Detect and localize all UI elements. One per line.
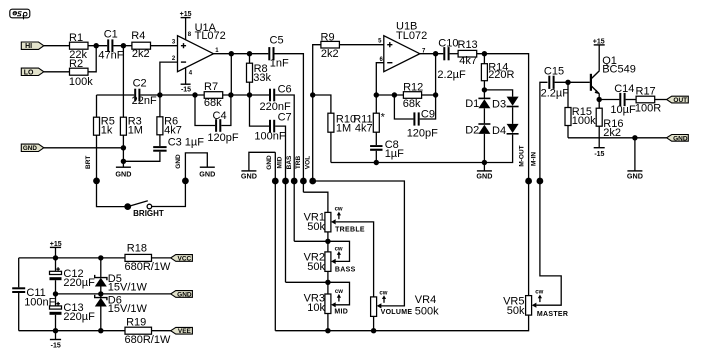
wire VOL node to R10 <box>313 95 331 113</box>
wire U1A pin2 <box>160 62 178 95</box>
+15 supply U1A pin8 <box>180 11 192 40</box>
wire MID to node <box>286 281 328 283</box>
wire output gnd row <box>568 137 667 139</box>
wire U1B output <box>420 53 444 55</box>
capacitor C15 <box>541 66 570 100</box>
wire bright to ground symbol <box>185 153 207 181</box>
resistor R5 <box>94 95 115 181</box>
svg-text:VEE: VEE <box>178 328 192 335</box>
wire M-IN to VR5 wiper <box>536 181 561 305</box>
svg-text:BASS: BASS <box>335 267 356 274</box>
node VR3 bottom <box>325 328 330 333</box>
wire R7 right <box>223 94 250 96</box>
svg-text:BRT: BRT <box>85 156 92 169</box>
node C13 bottom <box>53 328 58 333</box>
potentiometer VR2 <box>304 241 356 282</box>
svg-text:GND: GND <box>23 145 37 152</box>
svg-text:-15: -15 <box>51 343 61 350</box>
wire C7 to MID drop <box>275 126 285 282</box>
svg-text:C14: C14 <box>614 83 634 95</box>
node R3 gnd <box>121 145 126 150</box>
svg-text:C7: C7 <box>278 112 292 124</box>
wire GND drop <box>274 152 276 330</box>
node M-IN board <box>537 178 544 185</box>
ground symbol bright <box>199 167 215 178</box>
svg-text:R13: R13 <box>458 39 478 51</box>
wire bottom rail <box>19 330 125 332</box>
svg-text:-15: -15 <box>181 86 191 93</box>
wire out down to R12 <box>435 54 437 95</box>
svg-text:68k: 68k <box>204 97 222 109</box>
svg-text:68k: 68k <box>403 98 421 110</box>
svg-text:-15: -15 <box>594 151 604 158</box>
wire R19 to VEE <box>152 330 171 332</box>
wire feedback row <box>97 94 135 96</box>
connector HI <box>21 42 44 50</box>
connector OUT <box>667 96 689 104</box>
wire output down to feedback row <box>230 54 232 95</box>
node pin6 <box>374 92 379 97</box>
switch BRIGHT <box>124 201 164 219</box>
svg-text:MASTER: MASTER <box>537 311 568 318</box>
svg-text:TRB: TRB <box>295 156 302 170</box>
svg-text:R1: R1 <box>69 32 83 44</box>
svg-text:10µF: 10µF <box>610 104 636 116</box>
svg-text:4k7: 4k7 <box>164 124 182 136</box>
wire U1B pin6 <box>376 63 384 95</box>
transistor Q1 <box>590 55 636 94</box>
svg-text:BRIGHT: BRIGHT <box>133 209 164 218</box>
svg-text:GND: GND <box>115 169 131 178</box>
svg-text:+15: +15 <box>593 38 605 45</box>
svg-text:R12: R12 <box>403 82 423 94</box>
svg-text:VCC: VCC <box>178 255 192 262</box>
resistor R8 <box>247 54 272 95</box>
svg-text:GND: GND <box>241 172 257 181</box>
node R8 top <box>247 51 252 56</box>
capacitor C3 <box>153 136 204 151</box>
svg-text:50k: 50k <box>307 261 325 273</box>
node gnd out <box>632 135 637 140</box>
wire VOL to VR4 wiper <box>313 181 405 306</box>
svg-text:2.2µF: 2.2µF <box>541 88 570 100</box>
svg-text:GND: GND <box>673 135 688 142</box>
svg-text:M-IN: M-IN <box>531 152 538 166</box>
svg-text:M-OUT: M-OUT <box>519 145 526 166</box>
capacitor C1 <box>98 29 123 62</box>
resistor R17 <box>635 86 661 115</box>
svg-text:15V/1W: 15V/1W <box>108 303 148 315</box>
wire LO to R2 <box>44 71 70 73</box>
svg-text:D3: D3 <box>492 98 506 110</box>
resistor R7 <box>204 81 223 109</box>
-15 supply rail <box>50 331 61 350</box>
wire left branch top <box>18 258 20 287</box>
node base/R15 <box>565 80 570 85</box>
svg-text:C10: C10 <box>438 38 458 50</box>
svg-text:2.2µF: 2.2µF <box>437 69 466 81</box>
resistor R2 <box>69 58 93 88</box>
node MID board <box>282 178 289 185</box>
node VOL board <box>309 178 316 185</box>
wire R1 to C1 <box>88 45 107 47</box>
+15 supply Q1 <box>593 38 605 70</box>
svg-text:TL072: TL072 <box>396 30 427 42</box>
wire VR3 wiper loop <box>328 282 350 305</box>
svg-text:100R: 100R <box>635 103 661 115</box>
wire R17 to OUT <box>655 99 667 101</box>
svg-text:GND: GND <box>476 172 492 181</box>
node D6 bottom <box>98 328 103 333</box>
svg-text:C3 1µF: C3 1µF <box>168 136 205 148</box>
diode D3 <box>492 97 519 111</box>
zener D6 <box>95 294 148 331</box>
node BAS board <box>291 178 298 185</box>
diode D1 <box>465 98 490 110</box>
node D5 top <box>98 255 103 260</box>
wire VR1 wiper to VR4 <box>336 222 374 297</box>
svg-text:BC549: BC549 <box>602 63 636 75</box>
resistor R6 <box>157 95 182 146</box>
svg-text:C2: C2 <box>133 78 147 90</box>
ground symbol tone <box>241 152 275 180</box>
svg-text:33k: 33k <box>253 72 271 84</box>
ground symbol output <box>627 138 643 181</box>
wire diode top row <box>484 90 512 97</box>
node diode gnd <box>482 160 487 165</box>
wire TRB to VR1 <box>303 192 328 212</box>
node R7 right <box>228 92 233 97</box>
connector GND out <box>667 135 689 143</box>
svg-text:R18: R18 <box>127 243 147 255</box>
resistor R13 <box>458 39 478 67</box>
resistor R11 <box>353 95 385 145</box>
svg-text:22nF: 22nF <box>132 95 157 107</box>
svg-text:R4: R4 <box>131 30 145 42</box>
resistor R9 <box>313 31 340 95</box>
ground symbol diodes <box>476 163 492 181</box>
node R7 left <box>192 92 197 97</box>
svg-text:TL072: TL072 <box>195 30 226 42</box>
node R13/R14 <box>482 51 487 56</box>
-15 supply Q1 <box>594 148 605 158</box>
svg-text:4k7: 4k7 <box>459 55 477 67</box>
svg-text:R19: R19 <box>126 316 146 328</box>
svg-text:cw: cw <box>335 206 343 212</box>
resistor R15 <box>565 82 596 138</box>
svg-text:100nF: 100nF <box>254 131 285 143</box>
svg-text:C9: C9 <box>421 109 435 121</box>
node D5/D6 <box>98 291 103 296</box>
diode D2 <box>465 108 490 162</box>
svg-text:VR4: VR4 <box>415 294 436 306</box>
capacitor C13 <box>50 294 96 331</box>
wire emitter to C14 <box>599 99 619 101</box>
wire R18 to VCC <box>152 257 171 259</box>
svg-text:1k: 1k <box>101 124 113 136</box>
+15 supply rail <box>50 241 62 258</box>
node R8 bottom <box>247 92 252 97</box>
svg-text:TREBLE: TREBLE <box>335 226 365 233</box>
svg-text:2k2: 2k2 <box>603 127 621 139</box>
connector GND input <box>21 144 44 152</box>
svg-text:15V/1W: 15V/1W <box>108 282 148 294</box>
svg-text:100k: 100k <box>69 76 93 88</box>
wire C2 to R7 <box>140 94 204 96</box>
capacitor C7 <box>250 95 292 143</box>
svg-text:2k2: 2k2 <box>321 48 339 60</box>
svg-text:VOL: VOL <box>305 156 312 169</box>
node R12 right <box>433 92 438 97</box>
svg-text:MID: MID <box>334 309 348 316</box>
svg-text:R17: R17 <box>636 86 656 98</box>
svg-text:C5: C5 <box>270 34 284 46</box>
wire U1A output <box>214 53 269 55</box>
node M-OUT board <box>525 178 532 185</box>
wire mid rail <box>56 293 171 295</box>
svg-text:1nF: 1nF <box>270 58 289 70</box>
svg-text:GND: GND <box>199 169 215 178</box>
svg-text:LO: LO <box>24 69 34 76</box>
svg-text:1M: 1M <box>336 123 351 135</box>
svg-text:VOLUME: VOLUME <box>381 309 413 316</box>
wire C1 to R4 <box>113 45 131 47</box>
node GND board <box>272 178 279 185</box>
node R12 left <box>392 92 397 97</box>
wire left branch bottom <box>18 293 20 331</box>
svg-text:120pF: 120pF <box>407 127 438 139</box>
svg-text:D2: D2 <box>465 124 479 136</box>
resistor R19 <box>125 316 171 346</box>
svg-text:500k: 500k <box>415 306 439 318</box>
svg-text:HI: HI <box>25 43 32 50</box>
svg-text:*: * <box>381 112 386 124</box>
node C12/C13 <box>53 291 58 296</box>
potentiometer VR3 <box>304 282 349 330</box>
node U1B out <box>433 51 438 56</box>
wire BAS to node <box>294 240 328 242</box>
resistor R18 <box>125 243 171 274</box>
wire C5 to TRB drop <box>275 54 304 193</box>
node bright left <box>93 178 100 185</box>
wire R12 right <box>422 94 436 96</box>
ground symbol under R3 <box>115 167 131 178</box>
node C8 gnd <box>374 160 379 165</box>
potentiometer VR5 <box>503 181 568 318</box>
svg-text:D1: D1 <box>465 98 479 110</box>
svg-text:R9: R9 <box>321 31 335 43</box>
svg-text:680R/1W: 680R/1W <box>125 334 171 346</box>
wire switch to gnd <box>152 181 186 207</box>
capacitor C2 <box>132 78 157 107</box>
capacitor C14 <box>610 83 636 116</box>
capacitor C6 <box>250 84 292 114</box>
svg-text:220R: 220R <box>488 69 514 81</box>
svg-text:GND: GND <box>177 291 192 298</box>
capacitor C11 <box>12 287 55 309</box>
svg-text:220µF: 220µF <box>63 277 95 289</box>
svg-text:MID: MID <box>277 156 284 168</box>
wire C15 to base <box>555 81 590 83</box>
wire R2 up to junction <box>88 46 96 72</box>
-15 supply U1A pin4 <box>181 68 192 94</box>
op-amp U1A <box>172 22 226 77</box>
svg-text:GND: GND <box>175 154 182 169</box>
svg-text:BAS: BAS <box>286 155 293 169</box>
svg-text:OUT: OUT <box>673 97 687 104</box>
node TRB board <box>300 178 307 185</box>
capacitor C8 <box>370 139 404 163</box>
connector VCC <box>171 255 193 263</box>
wire C6 to BAS drop <box>275 95 294 241</box>
wire C14 to R17 <box>626 99 637 101</box>
svg-text:C4: C4 <box>213 110 227 122</box>
node C3 return <box>121 159 126 164</box>
node pin2 <box>157 92 162 97</box>
wire pot ground rail <box>275 315 528 331</box>
wire R9 to U1B pin5 <box>339 44 383 46</box>
potentiometer VR1 <box>304 206 365 241</box>
svg-text:50k: 50k <box>307 221 325 233</box>
svg-text:2k2: 2k2 <box>132 48 150 60</box>
wire VOL drop lower <box>312 95 314 181</box>
resistor R3 <box>120 46 143 168</box>
node input junction <box>94 43 99 48</box>
wire top rail <box>19 257 125 259</box>
node C12 top <box>53 255 58 260</box>
svg-text:1M: 1M <box>128 124 143 136</box>
resistor R4 <box>131 30 150 60</box>
resistor R10 <box>328 113 356 162</box>
diode D4 <box>484 107 518 162</box>
connector GND power <box>171 291 193 299</box>
svg-text:R2: R2 <box>69 58 83 70</box>
svg-text:GND: GND <box>266 155 273 170</box>
capacitor C4 loop <box>195 95 239 144</box>
node diode top <box>482 87 487 92</box>
node bright right <box>182 178 189 185</box>
zener D5 <box>95 258 148 294</box>
svg-text:C1: C1 <box>104 29 118 41</box>
svg-text:1µF: 1µF <box>385 148 404 160</box>
wire gnd row mid <box>331 162 485 164</box>
node VR4 bottom <box>371 328 376 333</box>
capacitor C5 <box>268 34 289 69</box>
wire pin6 row <box>376 94 403 96</box>
svg-text:4k7: 4k7 <box>355 123 373 135</box>
wire C3 to ground node <box>123 152 159 162</box>
svg-text:10k: 10k <box>307 302 325 314</box>
node emitter <box>597 97 602 102</box>
connector VEE <box>171 327 193 335</box>
svg-text:220µF: 220µF <box>63 311 95 323</box>
svg-text:cw: cw <box>535 290 543 296</box>
wire emitter down <box>598 94 600 108</box>
wire C10 to R13 <box>450 53 459 55</box>
wire R4 to U1A pin3 <box>151 45 178 47</box>
resistor R16 <box>596 108 623 148</box>
capacitor C12 <box>50 258 96 294</box>
svg-text:cw: cw <box>379 290 387 296</box>
svg-text:680R/1W: 680R/1W <box>125 261 171 273</box>
node U1A out feedback <box>229 51 234 56</box>
node VR2 bottom <box>325 280 330 285</box>
svg-text:120pF: 120pF <box>207 132 238 144</box>
wire GND row <box>44 147 124 149</box>
wire to bright switch <box>97 181 128 207</box>
svg-text:C6: C6 <box>278 84 292 96</box>
wire HI to R1 <box>44 45 70 47</box>
svg-text:47nF: 47nF <box>98 50 123 62</box>
connector LO <box>21 68 44 76</box>
svg-text:100k: 100k <box>572 115 596 127</box>
node C1/R4/R3 <box>121 43 126 48</box>
ESP logo <box>10 9 30 19</box>
svg-text:50k: 50k <box>507 305 525 317</box>
potentiometer VR4 <box>371 290 440 330</box>
capacitor C10 <box>437 38 466 82</box>
resistor R14 <box>481 54 514 99</box>
node VR1 bottom <box>325 239 330 244</box>
svg-text:D4: D4 <box>492 125 506 137</box>
wire R13 to M-OUT drop <box>477 54 529 181</box>
svg-text:C15: C15 <box>544 66 564 78</box>
svg-text:R7: R7 <box>204 81 218 93</box>
wire M-IN drop <box>540 82 548 181</box>
capacitor C9 loop <box>394 95 438 139</box>
resistor R12 <box>403 82 423 110</box>
wire VR2 wiper loop <box>328 241 350 261</box>
svg-text:GND: GND <box>627 172 643 181</box>
node VOL to R10 <box>310 92 315 97</box>
op-amp U1B <box>378 21 427 72</box>
resistor R1 <box>69 32 88 61</box>
